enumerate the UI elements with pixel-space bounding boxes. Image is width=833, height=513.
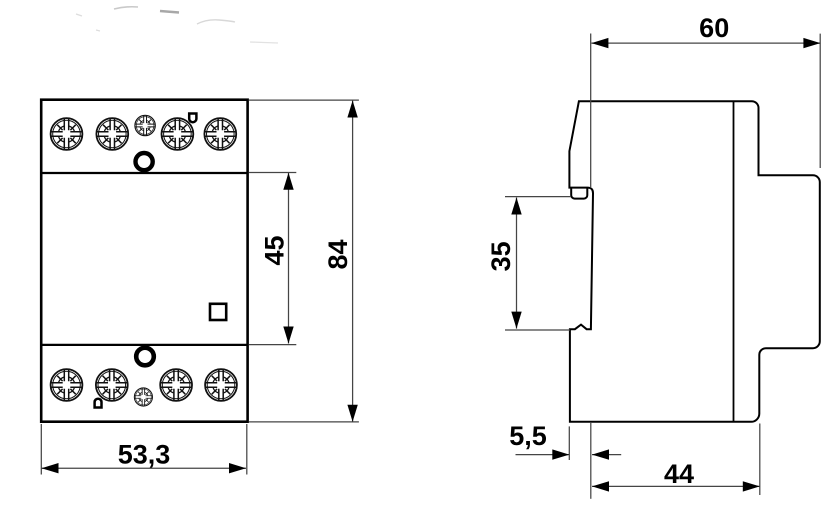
- svg-text:84: 84: [323, 239, 353, 269]
- DIN claw top: [571, 188, 587, 199]
- ext line 53,3 left: [40, 424, 42, 475]
- top strip line: [41, 172, 247, 174]
- dim line 35: [516, 198, 518, 329]
- arrow 45 up: [283, 173, 293, 190]
- ext line 60 right: [819, 34, 821, 168]
- indicator ring bottom: [136, 348, 154, 366]
- dim line 84: [352, 101, 354, 422]
- arrow 35 up: [511, 198, 521, 215]
- arrow 45 down: [283, 327, 293, 344]
- arrow 44 left: [592, 481, 609, 491]
- D marker bottom: [95, 399, 102, 408]
- front view body outline: [41, 100, 247, 422]
- screw T3: [162, 118, 194, 150]
- indicator ring top: [136, 153, 153, 170]
- small screw T (coil): [135, 115, 155, 135]
- small screw B (coil): [134, 388, 152, 406]
- step inner line: [733, 101, 735, 422]
- screw T1: [51, 118, 83, 150]
- ext line 5,5 left: [568, 426, 570, 460]
- screw B3: [160, 369, 192, 401]
- svg-text:44: 44: [664, 459, 694, 489]
- ext line 45 bottom: [249, 344, 296, 346]
- arrow 44 right: [743, 481, 760, 491]
- arrow 60 left: [591, 38, 608, 48]
- ext line 53,3 right: [246, 424, 248, 475]
- indicator window square: [210, 304, 226, 320]
- dim line 5,5 left part: [516, 454, 570, 456]
- dim line 45: [288, 173, 290, 344]
- svg-text:35: 35: [486, 241, 516, 271]
- D marker top: [189, 114, 196, 123]
- bottom strip line: [41, 344, 247, 346]
- side view outline: [569, 101, 819, 422]
- screw B4: [205, 369, 237, 401]
- faint smudges top: [76, 7, 278, 43]
- screw T2: [96, 118, 128, 150]
- dim line 5,5 right part: [592, 454, 621, 456]
- ext line 45 top: [249, 172, 296, 174]
- svg-text:5,5: 5,5: [509, 421, 547, 451]
- svg-text:60: 60: [699, 13, 729, 43]
- arrow 35 down: [511, 312, 521, 329]
- screw B1: [51, 369, 83, 401]
- arrow 84 down: [347, 405, 357, 422]
- arrow 53,3 left: [42, 463, 59, 473]
- ext line 35 top: [505, 196, 571, 198]
- arrow 53,3 right: [229, 463, 246, 473]
- arrow 84 up: [347, 101, 357, 118]
- screw B2: [96, 369, 128, 401]
- ext line 84 bottom: [249, 421, 359, 423]
- ext line 35 bottom: [505, 329, 570, 331]
- dim line 53,3: [42, 467, 247, 469]
- arrow 5,5 right (points left): [592, 449, 609, 459]
- ext line 84 top: [249, 99, 359, 101]
- ext line 44 right: [759, 424, 761, 496]
- svg-text:45: 45: [260, 235, 290, 265]
- arrow 5,5 left (points right): [552, 449, 569, 459]
- arrow 60 right: [803, 38, 820, 48]
- ext line 60 left: [590, 34, 592, 188]
- dim line 60: [591, 42, 820, 44]
- ext line 44/5,5 shared: [590, 423, 592, 499]
- svg-text:53,3: 53,3: [118, 440, 171, 470]
- screw T4: [204, 118, 236, 150]
- dim line 44: [592, 485, 760, 487]
